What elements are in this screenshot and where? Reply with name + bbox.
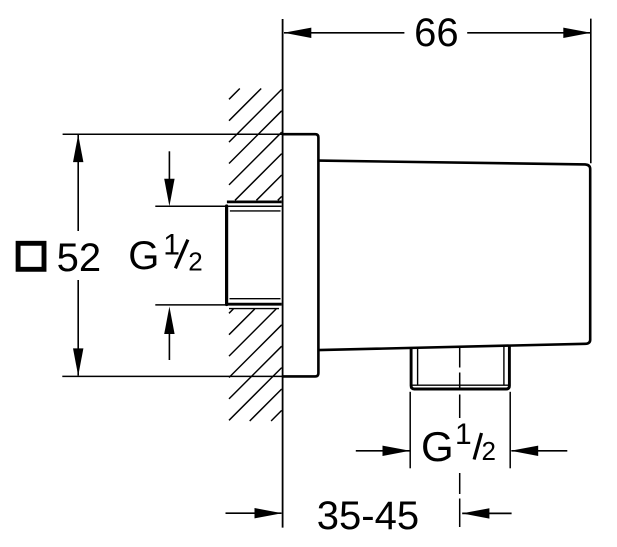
wall hatch upper section [229,89,282,201]
wall face line [282,19,284,528]
escutcheon wall plate [282,134,319,376]
svg-text:66: 66 [414,11,459,55]
dimension 66 top [284,11,591,163]
outlet centerline [459,348,461,527]
dimension 35-45 bottom [226,494,512,538]
svg-text:G: G [421,423,454,470]
svg-text:1: 1 [455,418,472,451]
outlet thread G1/2 bottom [411,346,509,389]
dimension G1/2 outlet [356,392,568,470]
svg-text:2: 2 [188,246,202,276]
wall hatch lower section [229,309,282,421]
dimension square 52 left [18,134,282,376]
dimension G1/2 inlet [128,151,281,360]
svg-text:1: 1 [163,229,180,262]
svg-text:G: G [128,234,159,278]
body outline [318,161,590,351]
svg-text:35-45: 35-45 [317,494,419,538]
inlet thread G1/2 rear [227,202,282,309]
svg-text:2: 2 [482,436,496,466]
svg-text:52: 52 [57,236,102,280]
